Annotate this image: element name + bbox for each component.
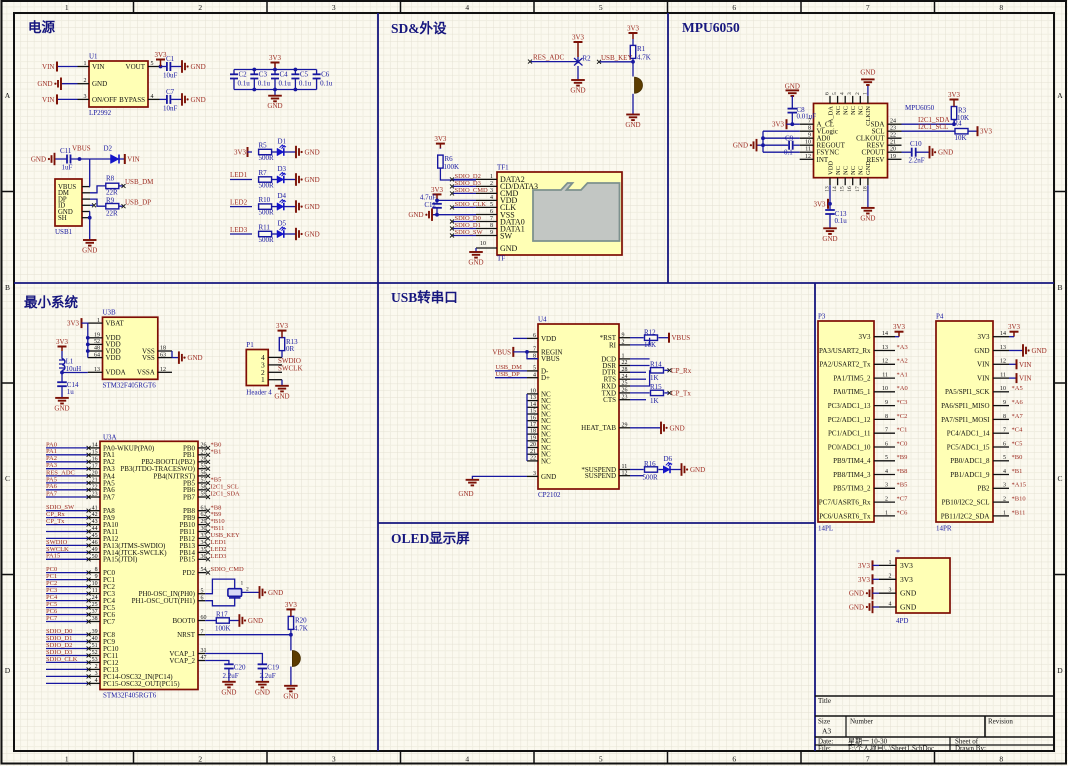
svg-text:9: 9 [622, 332, 625, 338]
svg-text:PB7: PB7 [183, 493, 196, 501]
wire at U3A pin 44 [46, 531, 89, 533]
svg-text:U1: U1 [89, 53, 98, 61]
svg-text:RES_ADC: RES_ADC [46, 469, 75, 476]
wire R10 to D4 [272, 206, 277, 208]
wire PC7 [46, 621, 89, 623]
wire PC6 [46, 614, 89, 616]
U4 pin 26 (TXD) [619, 392, 630, 394]
wire PA0 [46, 447, 89, 449]
TF1 pin 7 (DATA0) [476, 221, 497, 223]
svg-text:10: 10 [882, 386, 888, 392]
svg-text:4: 4 [889, 601, 892, 607]
svg-text:C: C [1057, 474, 1062, 483]
P3 pin 7 (PC1/ADC1_11) [874, 432, 895, 434]
svg-text:PA2/USART2_Tx: PA2/USART2_Tx [819, 361, 871, 369]
ground at R17 [239, 614, 242, 627]
cap bank bus bottom [234, 89, 317, 91]
svg-text:3V3: 3V3 [977, 333, 990, 341]
svg-text:PC2: PC2 [46, 580, 57, 587]
svg-text:*C2: *C2 [897, 413, 908, 420]
svg-text:R20: R20 [295, 617, 307, 625]
ground at P1 [275, 386, 289, 392]
wire PA1 [46, 454, 89, 456]
svg-text:21: 21 [530, 449, 536, 455]
MPU6050 pin 2 (NC) [859, 96, 861, 104]
wire D1 to GND [284, 151, 296, 153]
svg-text:9: 9 [808, 133, 811, 139]
section divider vertical x=378 [377, 13, 379, 751]
svg-text:VIN: VIN [42, 63, 54, 71]
svg-text:VSS: VSS [142, 354, 155, 362]
ground at 4PD.3 [870, 587, 873, 600]
svg-text:CP_Rx: CP_Rx [671, 367, 692, 375]
svg-text:GND: GND [860, 214, 875, 222]
U4 pin 4 (D+) [527, 377, 538, 379]
ground above C8 [786, 90, 800, 96]
wire GND to C8 [791, 96, 793, 109]
svg-text:BOOT0: BOOT0 [172, 617, 195, 625]
LED D1 [277, 148, 284, 156]
svg-text:PA1/TIM5_2: PA1/TIM5_2 [833, 375, 871, 383]
TF1 pin 10 (GND) [476, 247, 497, 249]
svg-text:VBAT: VBAT [106, 319, 125, 327]
USB1 pin GND [82, 211, 90, 213]
wire PC5 [46, 607, 89, 609]
power 3V3 at 4PD.2 [872, 574, 874, 584]
svg-text:GND: GND [37, 80, 52, 88]
svg-text:NC: NC [850, 166, 857, 175]
svg-text:28: 28 [622, 367, 628, 373]
power 3V3 at R13 [281, 331, 283, 338]
svg-text:NC: NC [843, 106, 850, 115]
svg-text:NC: NC [858, 166, 865, 175]
svg-text:VIN: VIN [1019, 375, 1031, 383]
svg-text:3: 3 [1003, 483, 1006, 489]
wire R13 to P1.4 [281, 351, 283, 358]
wire CLKIN to GND [867, 85, 869, 96]
wire SDIO_CLK [46, 661, 89, 663]
svg-text:9: 9 [1003, 400, 1006, 406]
P1 body [246, 350, 268, 386]
4PD pin 4 (GND) [879, 606, 896, 608]
P4 pin 2 (PB10/I2C2_SCL) [993, 501, 1009, 503]
svg-text:9: 9 [885, 400, 888, 406]
svg-text:NC: NC [850, 106, 857, 115]
svg-text:*C7: *C7 [897, 496, 909, 503]
U3A pin 3 (PC14-OSC32_IN(PC14)) [89, 675, 100, 677]
U3A pin 29 (PB10) [198, 524, 207, 526]
svg-text:SD&外设: SD&外设 [391, 20, 447, 36]
P4 pin 10 (PA5/SPI1_SCK) [993, 391, 1009, 393]
power VIN (U1 pin1) [56, 62, 58, 72]
wire key to GND [290, 667, 292, 686]
push button KEY1 [635, 77, 643, 93]
USB1 body [55, 179, 82, 226]
wire DP to R9 [90, 199, 106, 206]
MPU6050 pin 4 (NC) [844, 96, 846, 104]
svg-text:PC0: PC0 [46, 566, 57, 573]
TF1 pin 2 (CD/DATA3) [476, 185, 497, 187]
power 3V3 at cap bank [274, 63, 276, 70]
wire VLogic to bus [763, 130, 800, 132]
ground below C13 [823, 228, 837, 234]
svg-text:24: 24 [890, 119, 896, 125]
svg-text:CP_Tx: CP_Tx [671, 389, 691, 397]
ground at cap bank [268, 96, 282, 102]
wire C9 to REGOUT pin [794, 144, 800, 146]
svg-text:100K: 100K [215, 624, 231, 632]
svg-text:3: 3 [533, 471, 536, 477]
svg-text:22R: 22R [106, 210, 118, 218]
U3A pin 58 (PB6) [198, 489, 207, 491]
junction C12-VSS junction [435, 213, 439, 217]
svg-text:USB_DM: USB_DM [125, 178, 154, 186]
P3 body [818, 321, 874, 522]
svg-text:41: 41 [92, 505, 98, 511]
svg-text:11: 11 [882, 373, 888, 379]
svg-text:20: 20 [92, 471, 98, 477]
svg-text:3V3: 3V3 [900, 575, 913, 584]
U4 pin 21 (NC) [527, 453, 538, 455]
P4 pin 9 (PA6/SPI1_MISO) [993, 405, 1009, 407]
wire USB_DM to D- [495, 370, 527, 372]
wire R14 out [664, 369, 668, 371]
power 3V3 at P3.14 [898, 332, 900, 337]
wire at U3A pin 4 [46, 682, 89, 684]
svg-text:PB11/I2C2_SDA: PB11/I2C2_SDA [941, 512, 990, 520]
wire R15 out [664, 392, 668, 394]
svg-text:40: 40 [92, 636, 98, 642]
svg-text:2.2nF: 2.2nF [909, 157, 925, 165]
wire VDD stub [513, 337, 527, 339]
capacitor C8 [788, 109, 798, 113]
svg-text:SDIO_CMD: SDIO_CMD [455, 187, 489, 194]
U3A pin 51 (PC10) [89, 648, 100, 650]
P3 pin 5 (PB9/TIM4_4) [874, 460, 895, 462]
wire R16 to D6 [658, 469, 663, 471]
U3A pin 39 (PC8) [89, 634, 100, 636]
svg-text:3: 3 [889, 588, 892, 594]
svg-text:7: 7 [866, 3, 870, 12]
svg-text:PC7: PC7 [103, 618, 116, 626]
junction [86, 343, 90, 347]
wire RI up [630, 338, 650, 345]
U3A pin 56 (PB4(NJTRST)) [198, 475, 207, 477]
frame column tick 6 [800, 1, 802, 13]
svg-text:3V3: 3V3 [858, 576, 871, 584]
svg-text:10: 10 [480, 241, 486, 247]
U4 pin 11 (*SUSPEND) [619, 469, 630, 471]
svg-text:HEAT_TAB: HEAT_TAB [581, 424, 616, 432]
svg-text:6: 6 [533, 333, 536, 339]
svg-text:15: 15 [92, 449, 98, 455]
svg-text:GND: GND [191, 96, 206, 104]
svg-text:26: 26 [622, 388, 628, 394]
U4 pin 10 (NC) [527, 393, 538, 395]
svg-text:3: 3 [490, 188, 493, 194]
svg-text:GND: GND [255, 688, 270, 696]
wire C13 to GND [829, 214, 831, 228]
capacitor C3 [250, 74, 258, 78]
svg-text:R14: R14 [650, 360, 662, 368]
U4 pin 24 (RTS) [619, 378, 630, 380]
svg-text:1: 1 [261, 375, 265, 384]
svg-text:7: 7 [533, 347, 536, 353]
svg-text:GND: GND [625, 121, 640, 129]
section divider vertical x=668 (SD|MPU) [667, 13, 669, 283]
svg-text:TF1: TF1 [497, 164, 509, 172]
svg-text:VBUS: VBUS [541, 355, 560, 363]
U3A pin 27 (PB1) [198, 454, 207, 456]
svg-text:GND: GND [900, 603, 917, 612]
svg-text:PC6: PC6 [46, 608, 58, 615]
TF1 pin 6 (VSS) [476, 214, 497, 216]
MPU6050 pin 7 (A_CL) [800, 123, 814, 125]
svg-text:55: 55 [201, 463, 207, 469]
svg-text:1K: 1K [650, 374, 659, 382]
wire RES_ADC to R2 [531, 61, 578, 63]
U3A pin 41 (PA8) [89, 510, 100, 512]
svg-text:GND: GND [938, 149, 953, 157]
power 3V3 at TF1.VDD [436, 194, 438, 200]
svg-text:39: 39 [92, 629, 98, 635]
wire P4.12 VIN [1009, 363, 1017, 365]
svg-text:GND: GND [468, 259, 483, 267]
IC U3A right pins [120, 443, 206, 665]
svg-text:C11: C11 [60, 147, 72, 155]
P4 pin 5 (PB0/ADC1_8) [993, 460, 1009, 462]
wire DCD [630, 358, 650, 360]
svg-text:19: 19 [890, 154, 896, 160]
svg-text:3V3: 3V3 [858, 333, 871, 341]
LED D5 [277, 230, 284, 238]
svg-text:20: 20 [890, 147, 896, 153]
resistor R12 [645, 335, 658, 340]
P3 pin 9 (PC3/ADC1_13) [874, 405, 895, 407]
svg-text:500R: 500R [259, 154, 275, 162]
svg-text:SUSPEND: SUSPEND [585, 472, 616, 480]
svg-text:10K: 10K [955, 134, 967, 142]
junction 3V3/A_CL node [790, 122, 794, 126]
wire SDIO_D3 [46, 655, 89, 657]
wire PC4 [46, 600, 89, 602]
pin 4 (BYPASS) [148, 98, 160, 100]
wire U4.GND [472, 476, 527, 479]
svg-text:C: C [5, 474, 10, 483]
wire 3V3 to R1 [632, 39, 634, 45]
TF1 pin 5 (CLK) [476, 206, 497, 208]
svg-text:PA6/SPI1_MISO: PA6/SPI1_MISO [941, 402, 989, 410]
wire GND to VSS [432, 214, 476, 216]
svg-text:CLKIN: CLKIN [865, 106, 872, 126]
svg-text:USB_KEY: USB_KEY [601, 54, 633, 62]
svg-text:4PD: 4PD [896, 617, 908, 625]
U3A pin 24 (PC4) [89, 600, 100, 602]
svg-text:10: 10 [1000, 386, 1006, 392]
svg-text:C3: C3 [259, 71, 268, 79]
capacitor C12 [432, 204, 442, 208]
wire PA6 [46, 489, 89, 491]
svg-text:1: 1 [65, 3, 69, 12]
svg-text:C19: C19 [267, 664, 279, 672]
svg-text:0.1u: 0.1u [258, 80, 271, 88]
USB1 pin SH [82, 217, 90, 219]
svg-text:0.1u: 0.1u [299, 80, 312, 88]
U3A pin 40 (PC9) [89, 641, 100, 643]
ground at D1 [296, 146, 299, 158]
power 3V3 at R20 [290, 609, 292, 616]
wire crystal to GND [242, 591, 260, 593]
ground at crystal [260, 586, 263, 599]
svg-text:26: 26 [201, 443, 207, 449]
svg-text:CP_Tx: CP_Tx [46, 518, 65, 525]
power 3V3 at VBAT [81, 318, 83, 328]
connector P4 (14PR) [936, 313, 1009, 533]
power 3V3 at P4.14 [1013, 332, 1015, 337]
svg-text:RI: RI [609, 341, 617, 349]
svg-text:GND: GND [305, 149, 320, 157]
ground at C7 [182, 93, 185, 106]
svg-text:10uH: 10uH [66, 365, 82, 373]
wire CTS [630, 399, 646, 401]
U3A pin 42 (PA9) [89, 517, 100, 519]
svg-text:61: 61 [201, 505, 207, 511]
svg-text:I2C1_SCL: I2C1_SCL [211, 483, 239, 490]
wire PA5 [46, 482, 89, 484]
svg-text:GND: GND [408, 211, 423, 219]
svg-text:B: B [5, 283, 10, 292]
svg-text:C20: C20 [234, 664, 246, 672]
ground above MPU (CLKIN) [861, 79, 875, 85]
U3A pin 4 (PC15-OSC32_OUT(PC15)) [89, 682, 100, 684]
svg-text:1: 1 [490, 174, 493, 180]
svg-text:6: 6 [1003, 441, 1006, 447]
MPU6050 pin 20 (CPOUT) [888, 151, 902, 153]
svg-text:File:: File: [818, 745, 831, 753]
wire SDIO_D2 [453, 178, 476, 180]
svg-text:PB10/I2C2_SCL: PB10/I2C2_SCL [942, 499, 990, 507]
U3A pin 38 (PC7) [89, 621, 100, 623]
TF1 pin 1 (DATA2) [476, 178, 497, 180]
ground at U1.2 [58, 78, 61, 91]
inductor L1 [62, 359, 65, 371]
svg-text:VIN: VIN [92, 63, 104, 71]
svg-text:GND: GND [860, 68, 875, 76]
svg-text:VDD: VDD [106, 354, 121, 362]
svg-text:37: 37 [92, 609, 98, 615]
push button RESET [292, 651, 300, 667]
U4 pin 19 (NC) [527, 440, 538, 442]
MPU6050 pin 5 (NC) [837, 96, 839, 104]
junction [86, 336, 90, 340]
svg-text:PA7: PA7 [103, 493, 115, 501]
power 3V3 at VOUT [160, 60, 162, 67]
wire CP_Tx [46, 524, 89, 526]
svg-text:1: 1 [1003, 510, 1006, 516]
svg-text:U3A: U3A [103, 434, 117, 442]
svg-text:D1: D1 [278, 137, 287, 145]
svg-text:3V3: 3V3 [276, 322, 289, 330]
svg-text:4.7K: 4.7K [637, 54, 651, 62]
wire P1.1 to GND [281, 380, 283, 386]
wire MPU GND down [867, 185, 869, 208]
svg-text:VIN: VIN [42, 96, 54, 104]
junction VDDA node [60, 371, 64, 375]
svg-text:43: 43 [92, 519, 98, 525]
resistor R9 [106, 204, 119, 209]
svg-text:64: 64 [94, 352, 100, 358]
wire R20 to NRST [290, 629, 292, 634]
svg-text:SDIO_D0: SDIO_D0 [46, 628, 72, 635]
svg-text:VIN: VIN [127, 156, 139, 164]
wire bus to C4 [274, 70, 276, 75]
USB1 pin DP [82, 198, 90, 200]
svg-text:4: 4 [885, 469, 888, 475]
svg-text:11: 11 [92, 588, 98, 594]
svg-text:2: 2 [198, 3, 202, 12]
U4 pin 2 (RI) [619, 344, 630, 346]
wire PH1 to crystal [205, 597, 235, 606]
U3A pin 47 (VCAP_2) [198, 660, 205, 662]
svg-text:VIN: VIN [1019, 361, 1031, 369]
svg-text:0.1u: 0.1u [238, 80, 251, 88]
wire R2 to GND [577, 66, 579, 80]
U3A pin 10 (PC2) [89, 586, 100, 588]
frame column tick 4 [533, 1, 535, 13]
IC U1 (LP2992 regulator) [78, 53, 160, 118]
wire R3 to SDA [953, 120, 955, 125]
frame column tick 7 [934, 1, 936, 13]
U3A pin 43 (PA10) [89, 524, 100, 526]
wire R6 to SDIO_D2 [440, 168, 476, 180]
power 3V3 at MPU A_CL [786, 119, 788, 129]
capacitor C1 [167, 62, 171, 71]
junction [252, 88, 256, 92]
power 3V3 at R1 [632, 33, 634, 39]
wire USB1.VBUS up to VBUS node [89, 159, 91, 187]
MPU6050 pin 6 (A_DA) [829, 96, 831, 104]
P4 body [936, 321, 993, 522]
svg-text:5: 5 [490, 202, 493, 208]
svg-text:SDIO_CMD: SDIO_CMD [211, 566, 245, 573]
svg-text:*B5: *B5 [897, 482, 908, 489]
svg-text:MPU6050: MPU6050 [905, 104, 935, 112]
power 3V3 at R2 [577, 42, 579, 57]
svg-text:*B8: *B8 [897, 468, 908, 475]
MPU6050 pin 15 (NC) [844, 178, 846, 186]
wire VBUS to REGIN/VBUS [513, 352, 538, 359]
svg-text:18: 18 [530, 429, 536, 435]
svg-text:1: 1 [97, 318, 100, 324]
svg-text:Number: Number [850, 718, 874, 726]
svg-text:F:\个人项目\..\Sheet1.SchDoc: F:\个人项目\..\Sheet1.SchDoc [848, 745, 934, 753]
junction [252, 68, 256, 72]
U3A pin 34 (PB13) [198, 544, 207, 546]
P3 pin 11 (PA1/TIM5_2) [874, 377, 895, 379]
U3A pin 30 (PB11) [198, 531, 207, 533]
svg-text:3V3: 3V3 [980, 128, 993, 136]
svg-text:*C3: *C3 [897, 399, 908, 406]
U3B body [103, 317, 158, 379]
wire LED3 to R11 [230, 233, 252, 235]
USB1 pin VBUS [82, 186, 90, 188]
U3A pin 23 (PA7) [89, 496, 100, 498]
svg-text:15: 15 [530, 409, 536, 415]
wire C19 to GND [261, 669, 263, 682]
svg-text:VCAP_2: VCAP_2 [169, 657, 195, 665]
svg-text:*B10: *B10 [1012, 496, 1026, 503]
wire D4 to GND [284, 206, 296, 208]
